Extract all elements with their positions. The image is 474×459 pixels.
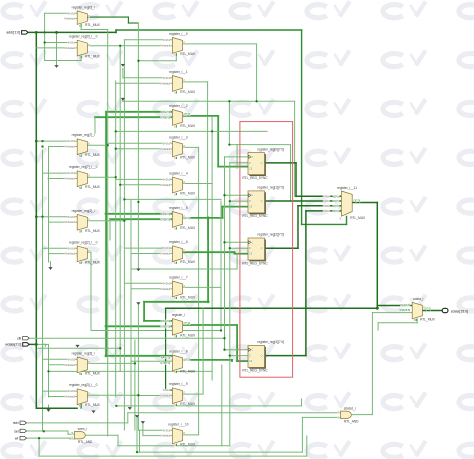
svg-text:O: O [183,145,185,148]
svg-text:S=1'b1: S=1'b1 [68,358,76,361]
wire [136,418,138,452]
svg-text:register_i: register_i [172,313,185,317]
svg-text:S=1'b1: S=1'b1 [163,429,171,432]
wire [36,47,77,49]
wire [130,200,132,408]
svg-text:O: O [183,79,185,82]
wire [166,389,173,391]
svg-text:S=1b3: S=1b3 [323,210,331,213]
wire [221,365,223,446]
junction [136,451,138,453]
wire [182,217,222,219]
wire [256,44,258,101]
wire [265,162,297,164]
wire [116,82,173,84]
junction [228,100,230,102]
svg-text:clk: clk [17,337,22,341]
svg-text:register_i__1: register_i__1 [169,70,188,74]
wire [80,24,82,29]
wire [124,247,172,249]
wire [131,288,172,290]
wire [143,435,173,437]
wire [68,433,74,435]
junction [137,60,139,62]
wire [120,184,172,186]
svg-text:O: O [183,250,185,253]
wire [302,416,340,418]
wire [42,150,44,430]
svg-text:O: O [88,44,90,47]
wire [198,147,200,435]
mux register_i__4 [160,172,196,197]
svg-text:O: O [183,392,185,395]
wire [230,162,248,164]
wire [131,360,172,362]
wire [372,312,412,314]
svg-text:S=1'b1: S=1'b1 [163,39,171,42]
ground stub [137,303,141,305]
wire [43,390,78,392]
svg-text:I0=default: I0=default [64,253,75,256]
svg-text:S=1b0: S=1b0 [323,195,331,198]
svg-text:sel: sel [14,429,19,433]
wire [237,360,248,362]
junction [211,130,213,132]
wire [48,178,77,180]
wire [236,254,238,269]
svg-text:Q: Q [261,355,263,358]
junction [35,343,38,346]
ground stub [49,268,53,270]
svg-text:Q: Q [261,162,263,165]
svg-text:O: O [183,432,185,435]
svg-text:RTL_MUX: RTL_MUX [180,124,196,128]
junction [41,216,43,218]
wire [43,247,78,249]
wire [230,200,248,202]
junction [223,194,225,196]
mux register_i__6 [160,240,196,265]
svg-text:S=1'b1: S=1'b1 [68,140,76,143]
wire [115,30,117,32]
svg-text:wren_i: wren_i [78,427,88,431]
svg-text:I2[7:0]: I2[7:0] [333,205,340,208]
wire [211,117,213,380]
svg-text:RTL_MUX: RTL_MUX [85,23,101,27]
wire [87,220,124,222]
svg-text:O: O [88,15,90,18]
wire [127,17,129,23]
ground stub [121,98,125,100]
svg-text:RTL_MUX: RTL_MUX [180,90,196,94]
svg-text:register_reg[2][7:0]: register_reg[2][7:0] [257,233,284,237]
wire [115,81,117,397]
wire [297,206,299,248]
svg-text:CE: CE [249,167,253,170]
svg-text:register_i__6: register_i__6 [169,240,188,244]
svg-text:RTL_MUX: RTL_MUX [180,295,196,299]
register register_reg[1][7:0] [242,186,284,219]
svg-text:register_i__4: register_i__4 [169,172,188,176]
svg-text:RTL_MUX: RTL_MUX [350,216,366,220]
svg-text:O: O [88,175,90,178]
svg-text:I0=default: I0=default [160,82,171,85]
wire [87,45,172,47]
svg-text:I1[7:0]: I1[7:0] [333,200,340,203]
svg-text:RTL_REG_SYNC: RTL_REG_SYNC [242,369,268,373]
svg-text:I0=default: I0=default [160,184,171,187]
svg-text:S=1'b1: S=1'b1 [68,247,76,250]
svg-text:register_reg[0]_i: register_reg[0]_i [72,5,95,9]
junction [220,329,222,331]
mux register_i__9 [160,382,196,407]
svg-text:rstn: rstn [13,421,19,425]
wire [144,320,172,322]
svg-text:S=1'b1: S=1'b1 [163,179,171,182]
junction [119,184,121,186]
svg-text:RTL_MUX: RTL_MUX [180,334,196,338]
wire [128,22,138,24]
wire [202,308,204,394]
wire [296,195,341,197]
junction [115,176,117,178]
wire [294,101,296,196]
svg-text:D: D [249,200,251,203]
wire [265,200,342,202]
svg-text:S=1b1: S=1b1 [323,200,331,203]
wire [38,407,77,409]
svg-text:I0[7:0]: I0[7:0] [333,195,340,198]
svg-text:RTL_MUX: RTL_MUX [85,229,101,233]
svg-text:RTL_MUX: RTL_MUX [85,371,101,375]
wire [36,407,77,409]
junction [35,140,38,143]
wire [49,221,78,223]
wire [182,146,198,148]
wire [36,216,77,218]
wire [290,145,292,201]
wire [122,99,124,102]
wire [139,430,141,452]
svg-text:RTL_MUX: RTL_MUX [180,192,196,196]
junction [123,198,125,200]
svg-text:S=1'b1: S=1'b1 [163,247,171,250]
junction [43,31,45,33]
junction [105,212,108,215]
junction [119,347,121,349]
junction [55,31,58,34]
svg-text:D: D [249,355,251,358]
wire [109,219,111,240]
junction [43,430,45,432]
junction [228,143,230,145]
wire [123,100,295,102]
wire [116,29,302,31]
wire [182,251,234,253]
junction [207,300,210,303]
wire [229,163,231,446]
wire [116,148,173,150]
svg-text:O: O [88,250,90,253]
wire [36,140,77,142]
svg-text:RTL_REG_SYNC: RTL_REG_SYNC [242,261,268,265]
wire [416,319,418,323]
wire [106,325,172,327]
svg-text:addr[1:0]: addr[1:0] [6,31,20,35]
port clk [17,336,29,340]
wire [87,362,134,364]
wire [230,355,248,357]
junction [38,437,40,439]
wire [107,30,109,437]
wire [36,343,48,345]
svg-text:I0=default: I0=default [64,178,75,181]
svg-text:register_i__11: register_i__11 [337,186,357,190]
wire [223,206,249,208]
wire [236,145,238,169]
wire [301,30,303,224]
svg-text:I0=9/7:0]: I0=9/7:0] [161,356,171,359]
svg-text:Q: Q [261,200,263,203]
wire [45,344,47,346]
wire [306,436,308,456]
mux register_i__3 [160,135,196,160]
wire [56,32,58,65]
junction [123,220,125,222]
wire [49,146,78,148]
svg-text:I0=default: I0=default [64,221,75,224]
wire [117,435,119,446]
wire [49,396,78,398]
wire [182,434,198,436]
svg-text:S=1'b1: S=1'b1 [163,142,171,145]
ground stub [135,416,139,418]
wire [49,364,78,366]
svg-text:O: O [88,393,90,396]
ground stub [137,269,141,271]
svg-text:O: O [423,306,425,309]
svg-text:register_reg[2]_i__0: register_reg[2]_i__0 [69,240,98,244]
svg-text:I1=B[15:8]: I1=B[15:8] [399,309,410,312]
wire [137,451,302,453]
wire [69,437,71,440]
svg-text:I1=D[7:0]: I1=D[7:0] [160,362,170,365]
wire [352,202,377,204]
svg-text:I1=D[7:0]: I1=D[7:0] [160,218,170,221]
wire [38,438,40,456]
svg-text:O: O [88,143,90,146]
wire [49,253,78,255]
wire [87,394,138,396]
mux register_i__11 [323,186,366,221]
svg-text:RTL_MUX: RTL_MUX [85,55,101,59]
wire [225,349,249,351]
svg-text:sdata1_i: sdata1_i [344,406,356,410]
wire [143,302,145,321]
wire [378,322,417,324]
svg-text:S=1'b1: S=1'b1 [163,282,171,285]
svg-text:I0=default: I0=default [64,396,75,399]
wire [110,218,172,220]
wire [29,337,225,339]
wire [236,325,238,361]
wire [131,395,172,397]
wire [182,324,237,326]
port rstn [13,421,27,425]
wire [207,82,209,240]
wire [81,29,108,31]
svg-text:I0=default: I0=default [64,364,75,367]
svg-text:C: C [252,349,254,352]
svg-text:S=1'b1: S=1'b1 [68,216,76,219]
svg-text:RTL_MUX: RTL_MUX [180,442,196,446]
wire [265,247,299,249]
wire [124,39,172,41]
svg-text:S=1'b1: S=1'b1 [163,77,171,80]
wire [28,31,116,33]
wire [122,69,124,78]
wire [44,13,46,60]
svg-text:I0=default: I0=default [160,148,171,151]
ground stub [128,408,132,410]
junction [229,354,231,356]
wire [346,216,348,224]
svg-text:register_reg[0]_i__0: register_reg[0]_i__0 [69,35,98,39]
svg-text:register_reg[2]_i: register_reg[2]_i [72,209,95,213]
wire [182,81,207,83]
wire [377,323,379,330]
wire [123,77,172,79]
wire [105,112,107,356]
register register_reg[2][7:0] [242,233,284,266]
svg-text:register_reg[0][7:0]: register_reg[0][7:0] [257,147,284,151]
wire [116,130,267,132]
mux register_reg[2]_i__0 [64,240,100,265]
svg-text:O: O [88,361,90,364]
svg-text:RTL_MUX: RTL_MUX [180,369,196,373]
junction [35,215,38,218]
wire [175,55,177,61]
ground stub [47,410,51,412]
svg-text:register_reg[7]_i__0: register_reg[7]_i__0 [69,165,98,169]
wire [35,32,37,408]
wire [94,117,96,133]
mux register_reg[7]_i__0 [64,165,100,190]
gate sdata1_i (RTL_AND) [337,406,359,423]
svg-text:O: O [183,113,185,116]
wire [123,40,125,430]
svg-text:I0=9/7:0]: I0=9/7:0] [161,213,171,216]
wire [225,241,249,243]
junction [115,130,117,132]
junction [229,200,231,202]
wire [228,101,230,144]
junction [223,337,225,339]
wire [224,157,226,350]
gate wren_i (RTL_AND) [71,427,93,444]
wire [108,142,173,144]
wire [225,194,249,196]
junction [137,201,139,203]
svg-text:O: O [183,215,185,218]
svg-text:O: O [183,285,185,288]
mux register_i__0 [160,32,196,57]
wire [301,399,303,406]
wire [70,18,77,20]
mux register_i__5 [160,206,196,231]
junction [119,45,121,47]
junction [376,307,379,310]
ground stub [121,64,125,66]
wire [265,355,306,357]
mux register_reg[3]_i__0 [64,383,100,408]
wire [106,355,172,357]
svg-text:CE: CE [249,206,253,209]
svg-text:register_reg[7]_i: register_reg[7]_i [72,133,95,137]
wire [222,207,224,218]
svg-text:register_i__10: register_i__10 [168,422,188,426]
svg-text:Q: Q [261,247,263,250]
svg-text:RTL_REG_SYNC: RTL_REG_SYNC [242,214,268,218]
wire [27,422,128,424]
wire [305,211,307,356]
wire [131,253,172,255]
svg-text:RTL_MUX: RTL_MUX [180,226,196,230]
group box (red) [240,122,293,378]
svg-text:RTL_MUX: RTL_MUX [85,185,101,189]
svg-text:S=1b2: S=1b2 [323,205,331,208]
wire [376,203,378,309]
svg-text:RTL_MUX: RTL_MUX [420,317,436,321]
svg-text:RTL_MUX: RTL_MUX [85,153,101,157]
wire [229,144,290,146]
wire [220,201,222,330]
junction [115,148,117,150]
port sdata[15:0] [442,308,468,313]
junction [223,349,225,351]
svg-text:O[7:0]: O[7:0] [354,200,361,203]
svg-text:I0=A[7:0]: I0=A[7:0] [400,304,410,307]
svg-text:O[7:0]: O[7:0] [424,308,431,311]
wire [124,198,221,200]
svg-text:O: O [183,181,185,184]
junction [47,370,49,372]
svg-text:I0=9/7:0]: I0=9/7:0] [161,320,171,323]
junction [35,31,38,34]
mux register_i__10 [160,422,196,447]
wire [301,417,303,452]
svg-text:RTL_AND: RTL_AND [344,420,359,424]
wire [43,172,78,174]
wire [49,370,213,372]
svg-text:RTL_REG_SYNC: RTL_REG_SYNC [242,176,268,180]
ground stub [92,411,96,413]
junction [115,405,117,407]
wire [85,434,118,436]
svg-text:RTL_MUX: RTL_MUX [180,402,196,406]
junction [229,247,231,249]
svg-text:wdata[7:0]: wdata[7:0] [5,343,21,347]
wire [144,301,208,303]
svg-text:O: O [183,323,185,326]
wire [298,205,341,207]
junction [105,354,108,357]
svg-text:O: O [183,41,185,44]
wire [140,429,173,431]
mux register_i__1 [160,70,196,95]
svg-text:I1=D[7:0]: I1=D[7:0] [160,325,170,328]
wire [137,23,139,268]
